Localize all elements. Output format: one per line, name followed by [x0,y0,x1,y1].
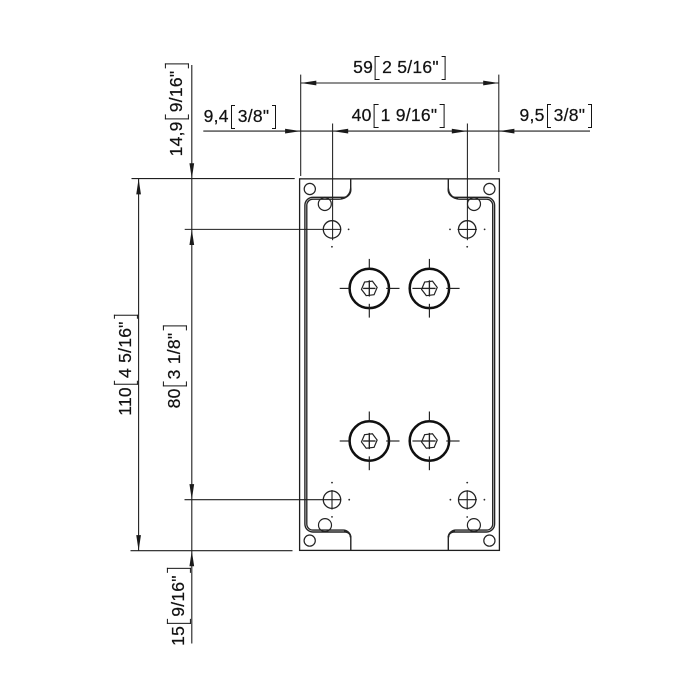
hex socket screw bottom-right [410,412,460,471]
cover screw hole bottom-right [450,482,486,518]
dimension text 40 [1 9/16"] [352,104,445,128]
dimension chain line 9,4 / 40 / 9,5 [203,129,590,134]
dimension line 110 [4 5/16"] [136,179,141,551]
dimension text 9,4 [3/8"] [204,105,277,129]
dimension text 110 [4 5/16"] (rotated) [114,314,138,415]
dimension text 59 [2 5/16"] [353,56,446,80]
plate outer outline [300,179,500,551]
cover screw hole bottom-left [323,482,350,518]
hex socket screw top-right [410,259,460,318]
extension line plate bottom edge [131,550,293,552]
corner mounting hole bottom-right [484,535,495,546]
extension line right edge (59/9.5 datum) [498,75,500,172]
extension line left edge (59/9.4 datum) [300,75,302,176]
cover screw hole top-left [323,221,349,248]
dimension text 80 [3 1/8"] (rotated) [163,325,187,408]
rim flange hole top-left [318,198,331,211]
corner mounting hole bottom-left [304,535,315,546]
corner mounting hole top-left [304,183,315,194]
cover screw hole top-right [449,221,485,248]
plate inner rim outline (outer line) [305,179,495,551]
rim flange hole bottom-left [319,519,332,532]
rim flange hole bottom-right [467,519,480,532]
dimension text 15 [9/16"] (rotated) [167,568,191,646]
extension line hole column left (40 dim) [332,124,334,241]
extension line upper hole row [185,228,342,230]
rim flange hole top-right [468,198,481,211]
rim fillet reinforcement arcs [341,189,458,538]
extension line hole column right (40 dim) [466,124,468,241]
plate inner rim outline (inner parallel line) [307,188,493,538]
corner mounting hole top-right [484,183,495,194]
extension line lower hole row [185,499,342,501]
dimension line 14,9 / 80 / 15 (shared) [189,65,194,644]
dimension text 14,9 [9/16"] (rotated) [165,64,189,157]
hex socket screw top-left [340,259,400,318]
extension line plate top edge [132,178,295,180]
dimension 59 [2 5/16"] line with arrows [301,81,499,86]
hex socket screw bottom-left [340,412,400,471]
dimension text 9,5 [3/8"] [520,104,593,128]
